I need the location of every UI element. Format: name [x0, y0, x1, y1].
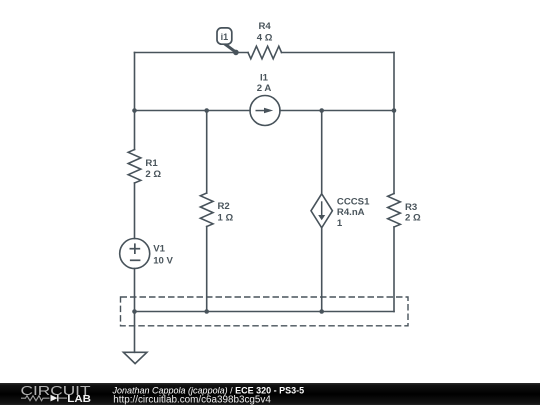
wire R3 column bottom [393, 227, 395, 312]
svg-text:1: 1 [337, 218, 343, 229]
wire ground stem [134, 312, 136, 353]
label I1 value [257, 72, 272, 94]
wire bottom horizontal [135, 311, 395, 313]
svg-text:R1: R1 [145, 158, 158, 169]
svg-text:2 A: 2 A [257, 83, 272, 94]
footer logo zigzag [21, 396, 50, 401]
wire V1 to bottom wire [134, 269, 136, 312]
wire R3 column top [393, 111, 395, 194]
wire R1 to V1 [134, 183, 136, 239]
svg-text:I1: I1 [260, 72, 269, 83]
voltage source V1 minus sign [130, 259, 141, 261]
junction dot node B (R2 top) [204, 108, 209, 113]
junction dot node G (CCCS bottom) [319, 309, 324, 314]
wire CCCS column top [321, 111, 323, 194]
svg-text:R4.nA: R4.nA [337, 207, 365, 218]
wire R2 column top [206, 111, 208, 194]
label R4 value [257, 21, 273, 44]
ground [123, 352, 146, 363]
footer logo CIRCUIT [21, 383, 91, 398]
svg-text:10 V: 10 V [153, 256, 173, 267]
svg-text:http://circuitlab.com/c6a398b3: http://circuitlab.com/c6a398b3cg5v4 [113, 394, 271, 405]
svg-text:V1: V1 [153, 244, 165, 255]
dashed highlight box (bottom net) [121, 297, 409, 326]
footer bar [0, 383, 540, 405]
wire right vertical (top wire to middle wire) [393, 53, 395, 111]
footer logo diode [51, 395, 68, 402]
svg-text:2 Ω: 2 Ω [145, 169, 161, 180]
junction dot node A (left, middle wire) [132, 108, 137, 113]
junction dot node F (R2 bottom) [204, 309, 209, 314]
wire top-left horizontal segment [135, 52, 249, 54]
junction dot node D (right, middle wire) [392, 108, 397, 113]
svg-text:R2: R2 [218, 201, 230, 212]
wire top-right horizontal segment [282, 52, 395, 54]
svg-text:i1: i1 [221, 32, 229, 42]
current source I1 [250, 96, 280, 126]
CCCS1 arrow [318, 201, 325, 220]
resistor R1 [128, 150, 141, 184]
label R1 value [145, 158, 161, 180]
voltage source V1 [120, 239, 150, 269]
svg-text:CCCS1: CCCS1 [337, 197, 370, 208]
wire left vertical (top wire to middle wire) [134, 53, 136, 111]
svg-text:2 Ω: 2 Ω [405, 213, 421, 224]
label V1 value [153, 244, 173, 267]
svg-text:LAB: LAB [67, 394, 91, 405]
junction dot node E (left, bottom wire) [132, 309, 137, 314]
resistor R2 [200, 193, 213, 227]
svg-text:R3: R3 [405, 202, 417, 213]
wire CCCS column bottom [321, 228, 323, 312]
voltage source V1 plus sign [130, 243, 141, 260]
current source I1 arrow [256, 108, 274, 114]
footer url line [113, 394, 271, 405]
current probe i1 callout [217, 28, 239, 55]
label CCCS1 value [337, 197, 370, 229]
label R2 value [218, 201, 234, 223]
svg-text:1 Ω: 1 Ω [218, 213, 234, 224]
svg-text:R4: R4 [258, 21, 271, 32]
resistor R4 [248, 46, 282, 59]
wire R2 column bottom [206, 227, 208, 312]
svg-text:4 Ω: 4 Ω [257, 33, 273, 44]
label R3 value [405, 202, 421, 224]
CCCS1 dependent source diamond [311, 194, 332, 228]
junction dot node C (CCCS top) [319, 108, 324, 113]
footer logo LAB [67, 394, 91, 405]
wire middle horizontal left of I1 [135, 110, 251, 112]
wire middle horizontal right of I1 [280, 110, 394, 112]
resistor R3 [388, 194, 401, 228]
wire left column (middle wire to R1) [134, 111, 136, 150]
footer title line [112, 385, 305, 395]
